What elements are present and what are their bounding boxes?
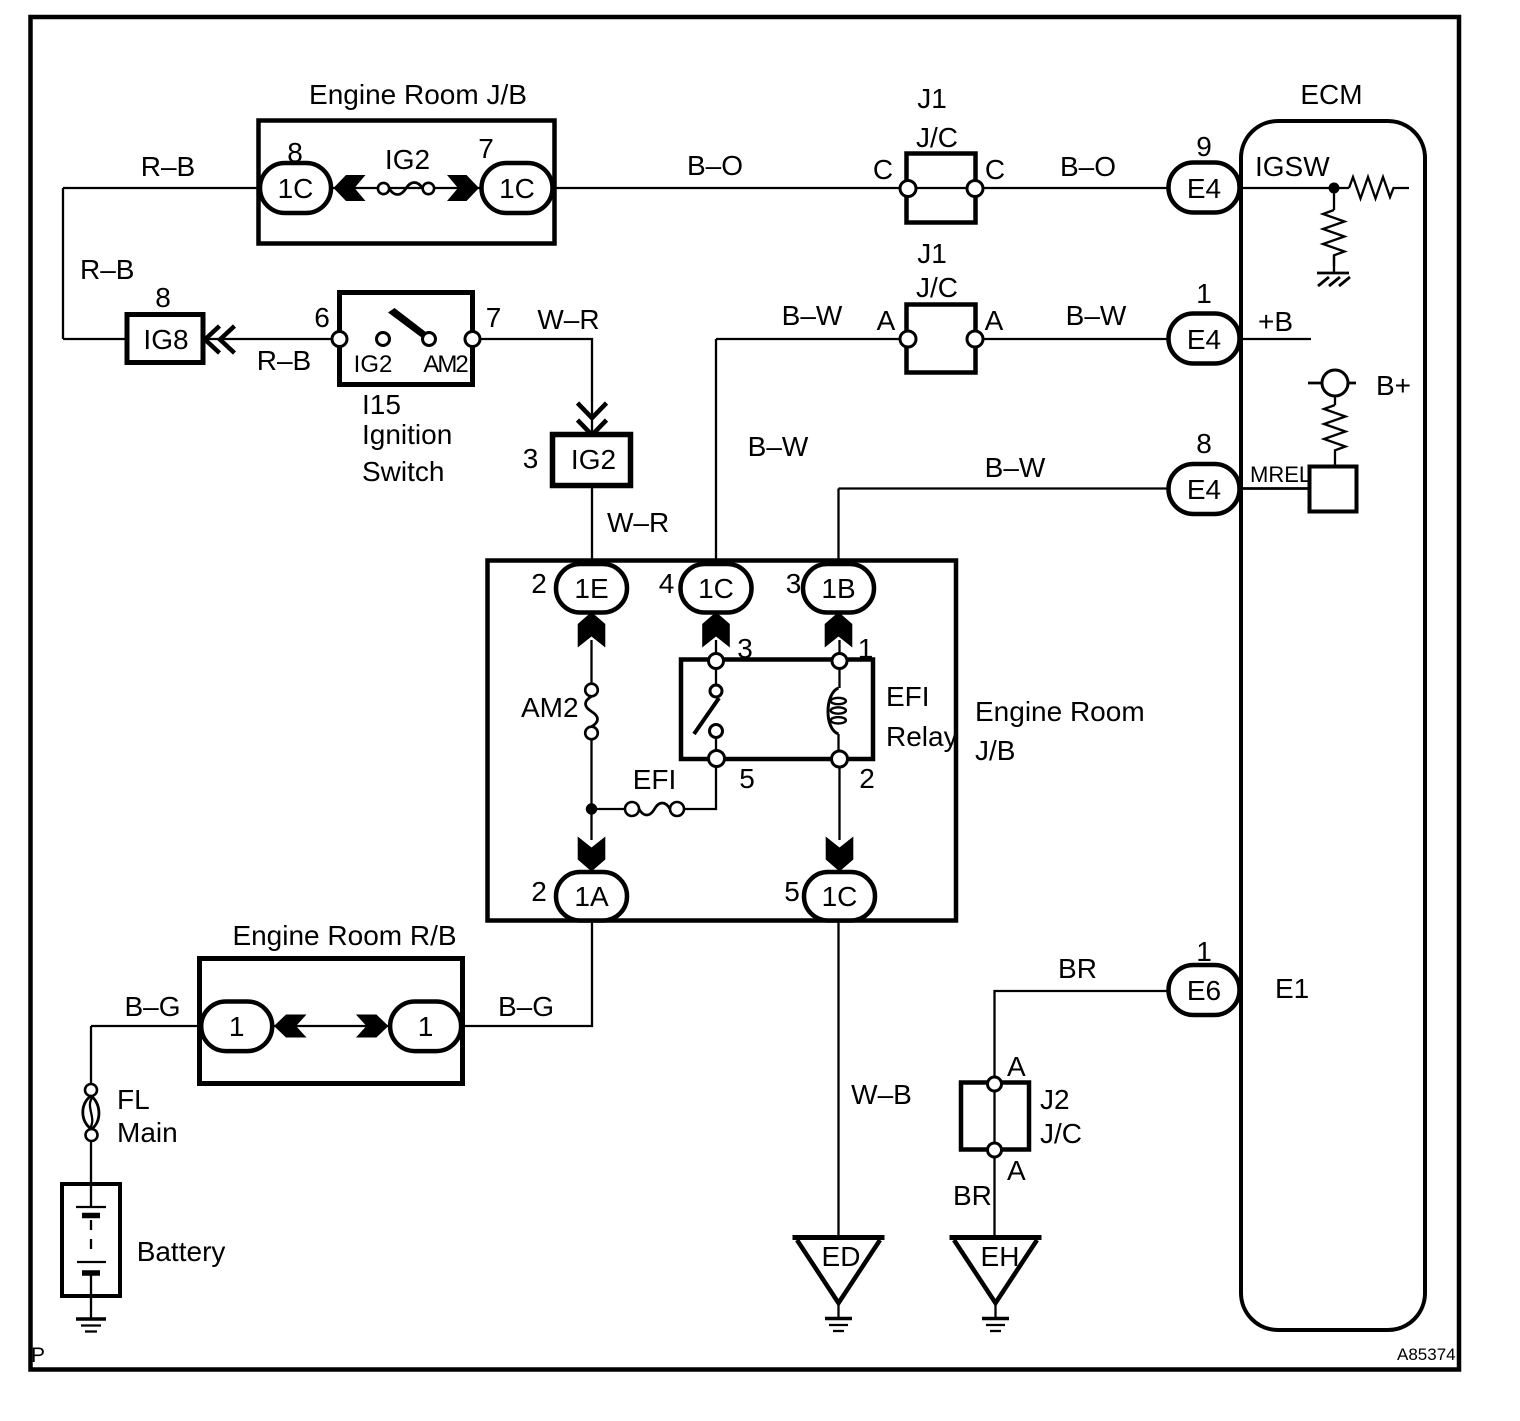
svg-text:1B: 1B [821, 573, 855, 604]
svg-text:J2: J2 [1040, 1084, 1070, 1115]
connector 1 (right, R/B) [390, 1002, 461, 1052]
svg-text:R–B: R–B [257, 345, 311, 376]
wire R-B from IG8 to ignition switch pin 6 [204, 338, 333, 340]
svg-text:E1: E1 [1275, 973, 1309, 1004]
node junction dot (EFI tap) [586, 803, 597, 814]
svg-text:9: 9 [1196, 131, 1212, 162]
wire relay pin 2 to 1C-5 arrow [838, 767, 840, 840]
svg-text:2: 2 [531, 876, 547, 907]
wire W-R from I15 pin 7 to IG2 fuse box [480, 339, 592, 434]
svg-text:AM2: AM2 [521, 692, 579, 723]
wire from B-G down to FL Main [90, 1026, 92, 1084]
wire from AM2 fuse through junction to 1A arrow [590, 739, 592, 840]
svg-text:IG2: IG2 [385, 144, 430, 175]
svg-text:Relay: Relay [886, 721, 958, 752]
wire inside R/B between connectors [272, 1025, 390, 1027]
connector 1A pin 2 [556, 872, 627, 921]
wire W-B from 1C pin 5 to ED [837, 920, 839, 1237]
svg-text:A: A [877, 305, 896, 336]
svg-text:1: 1 [1196, 278, 1212, 309]
svg-text:1A: 1A [574, 881, 609, 912]
svg-text:Main: Main [117, 1117, 178, 1148]
svg-text:B–G: B–G [498, 991, 554, 1022]
svg-text:MREL: MREL [1250, 462, 1311, 487]
svg-text:J/C: J/C [1040, 1118, 1082, 1149]
junction block Engine Room J/B (top) [259, 121, 555, 244]
svg-text:Switch: Switch [362, 456, 444, 487]
resistor (MREL circuit, vertical) [1324, 405, 1346, 466]
connector chevrons (double, down, at IG2 fuse box) [578, 403, 607, 435]
battery plate long (top cell) [76, 1206, 106, 1208]
relay pin 2 circle [832, 751, 848, 767]
svg-text:2: 2 [531, 568, 547, 599]
svg-text:A85374: A85374 [1397, 1345, 1456, 1364]
svg-text:1E: 1E [574, 573, 608, 604]
fuse IG2 [378, 183, 434, 195]
svg-text:E4: E4 [1187, 173, 1221, 204]
relay coil [828, 668, 846, 751]
resistor (IGSW pull-down, vertical) [1323, 210, 1345, 266]
wire relay pin 1 to 1B arrow [838, 640, 840, 653]
wire B-W from J1 J/C (A) to E4 pin 1 [983, 338, 1168, 340]
svg-text:1: 1 [418, 1011, 434, 1042]
relay pin 5 circle [709, 751, 725, 767]
svg-text:W–B: W–B [851, 1079, 912, 1110]
svg-text:J1: J1 [917, 83, 947, 114]
ECM body [1241, 121, 1425, 1330]
wire from EFI fuse to relay pin 5 [684, 766, 716, 809]
connector E4 pin 9 [1169, 163, 1240, 213]
connector 1C pin 4 [681, 564, 752, 613]
svg-text:1C: 1C [698, 573, 734, 604]
junction connector J1 J/C (C) body [907, 154, 976, 223]
wire B-W from 1B riser to E4 pin 8 [839, 487, 1169, 489]
battery dashed link [90, 1220, 92, 1257]
pin A circle (left) [900, 331, 916, 347]
wire R-B horizontal from frame-left riser to 1C pin 8 [63, 187, 260, 189]
relay pin 3 circle [709, 654, 724, 669]
svg-text:Engine Room R/B: Engine Room R/B [232, 920, 456, 951]
pin C circle (right) [967, 181, 983, 197]
svg-text:7: 7 [478, 133, 494, 164]
relay block IG8 pin 8 [127, 315, 203, 363]
svg-text:E6: E6 [1187, 975, 1221, 1006]
relay switch lever [694, 698, 719, 734]
junction connector J1 J/C (A) body [907, 305, 976, 373]
connector arrow (down, above 1C-5) [826, 837, 854, 872]
wire W-R from IG2 fuse to 1E [591, 486, 593, 564]
svg-text:8: 8 [155, 282, 171, 313]
node junction dot (IGSW) [1329, 183, 1340, 194]
pin A circle (right) [967, 331, 983, 347]
relay block Engine Room R/B [200, 959, 463, 1084]
svg-text:A: A [985, 305, 1004, 336]
pin A circle (J2 top) [988, 1077, 1002, 1091]
EFI relay body [681, 660, 873, 760]
svg-text:C: C [985, 154, 1005, 185]
switch contact IG2 [377, 333, 390, 346]
junction connector J2 J/C body [961, 1083, 1029, 1150]
battery body [62, 1184, 120, 1296]
svg-text:1: 1 [858, 633, 874, 664]
ground connector ED (triangle) [793, 1238, 885, 1304]
svg-text:1C: 1C [278, 173, 314, 204]
svg-text:8: 8 [1196, 428, 1212, 459]
wire FL Main to battery [90, 1141, 92, 1207]
pin A circle (J2 bottom) [988, 1143, 1002, 1157]
battery plate short (top cell) [82, 1213, 100, 1219]
svg-text:6: 6 [314, 302, 330, 333]
svg-text:B–W: B–W [782, 300, 843, 331]
connector E4 pin 8 [1169, 464, 1240, 514]
svg-text:B–W: B–W [985, 452, 1046, 483]
svg-text:E4: E4 [1187, 324, 1221, 355]
connector arrow (up, under 1E) [578, 612, 606, 648]
svg-text:4: 4 [659, 568, 675, 599]
svg-text:ECM: ECM [1300, 79, 1362, 110]
connector arrow (right, R/B) [356, 1015, 389, 1038]
connector E4 pin 1 [1169, 314, 1240, 364]
connector arrow (left, R/B) [274, 1015, 307, 1038]
svg-text:BR: BR [953, 1180, 992, 1211]
battery plate short (lower cell) [82, 1270, 100, 1276]
wire from node to pull-down resistor [1333, 188, 1335, 210]
svg-text:A: A [1007, 1155, 1026, 1186]
svg-text:3: 3 [523, 443, 539, 474]
svg-text:E4: E4 [1187, 474, 1221, 505]
wire inside J/B between connectors [331, 187, 483, 189]
ground connector EH (triangle) [950, 1238, 1042, 1304]
connector E6 pin 1 [1169, 965, 1240, 1015]
svg-text:Engine Room J/B: Engine Room J/B [309, 79, 527, 110]
relay coil box (inside ECM) [1310, 467, 1357, 512]
svg-text:B+: B+ [1376, 370, 1411, 401]
wire EH to ground [994, 1303, 996, 1317]
svg-text:8: 8 [287, 137, 303, 168]
svg-text:Engine Room: Engine Room [975, 696, 1145, 727]
svg-text:IG2: IG2 [354, 351, 393, 378]
svg-text:J/B: J/B [975, 735, 1015, 766]
pin 7 circle (I15) [465, 332, 480, 347]
switch lever (I15) [388, 308, 427, 338]
resistor (IGSW series, horizontal) [1349, 177, 1409, 199]
wire battery to ground [90, 1273, 92, 1318]
connector arrow (right, at 1C pin 7) [447, 175, 479, 201]
connector 1E pin 2 [556, 564, 627, 613]
switch contact AM2 [423, 333, 436, 346]
svg-text:C: C [873, 154, 893, 185]
wire B-W riser from 1C pin 4 [715, 339, 717, 564]
svg-text:IG8: IG8 [143, 324, 188, 355]
wire ED to ground [837, 1303, 839, 1317]
svg-text:P: P [31, 1344, 45, 1367]
wire from 1E arrow to AM2 fuse [590, 640, 592, 684]
svg-text:IG2: IG2 [571, 444, 616, 475]
svg-text:W–R: W–R [607, 507, 669, 538]
svg-text:Battery: Battery [137, 1236, 226, 1267]
connector 1C pin 5 [804, 872, 875, 921]
wire B-G from R/B to 1A [461, 920, 593, 1026]
wire relay pin 3 to 1C-4 arrow [715, 640, 717, 653]
svg-text:EFI: EFI [886, 681, 930, 712]
relay switch lower contact [710, 725, 723, 738]
wire MREL from E4 pin 8 to coil box [1240, 487, 1310, 490]
relay switch fixed contact [710, 685, 722, 697]
wire B-G from battery branch to R/B [91, 1025, 202, 1027]
fuse AM2 [585, 684, 598, 740]
svg-text:2: 2 [859, 763, 875, 794]
svg-text:5: 5 [784, 876, 800, 907]
svg-text:ED: ED [822, 1241, 861, 1272]
svg-text:A: A [1007, 1051, 1026, 1082]
wire IGSW inside ECM [1240, 187, 1349, 189]
svg-text:7: 7 [486, 302, 502, 333]
svg-text:R–B: R–B [80, 254, 134, 285]
wire +B inside ECM [1240, 338, 1311, 340]
svg-text:R–B: R–B [141, 151, 195, 182]
connector 1B pin 3 [803, 564, 874, 613]
pin 6 circle (I15) [332, 332, 347, 347]
svg-text:J1: J1 [917, 238, 947, 269]
svg-text:1C: 1C [499, 173, 535, 204]
junction block Engine Room J/B (center) [488, 561, 957, 921]
wire R-B into IG8 [63, 338, 127, 340]
wire from junction to EFI fuse [592, 808, 626, 810]
wire from B+ to resistor [1334, 396, 1336, 405]
svg-text:+B: +B [1258, 306, 1293, 337]
svg-text:AM2: AM2 [423, 351, 468, 378]
svg-text:B–O: B–O [687, 150, 743, 181]
connector 1 (left, R/B) [201, 1002, 272, 1052]
wire pin3 to contact [715, 668, 717, 685]
wire BR from J2 to EH [993, 1157, 995, 1237]
svg-text:J/C: J/C [916, 272, 958, 303]
svg-text:I15: I15 [362, 389, 401, 420]
wire to internal ground [1333, 255, 1335, 272]
svg-text:W–R: W–R [537, 304, 599, 335]
ground (EH) [982, 1319, 1009, 1332]
svg-text:J/C: J/C [916, 122, 958, 153]
svg-text:BR: BR [1058, 953, 1097, 984]
svg-text:3: 3 [786, 568, 802, 599]
connector 1C pin 7 [482, 163, 553, 213]
svg-text:IGSW: IGSW [1255, 151, 1330, 182]
connector arrow (down, above 1A) [578, 837, 606, 872]
wire BR from E6 to J2 J/C [995, 991, 1169, 1078]
svg-text:EH: EH [981, 1241, 1020, 1272]
ground (battery) [76, 1319, 106, 1332]
svg-text:B–G: B–G [124, 991, 180, 1022]
wire B-O from 1C pin 7 to E4 pin 9 [553, 187, 1169, 189]
svg-text:FL: FL [117, 1084, 150, 1115]
ground (ED) [825, 1319, 852, 1332]
ignition switch I15 body [340, 293, 473, 385]
battery feed symbol B+ [1308, 370, 1356, 396]
svg-text:3: 3 [737, 633, 753, 664]
pin C circle (left) [900, 181, 916, 197]
fuse EFI [625, 802, 684, 816]
svg-text:B–W: B–W [1066, 300, 1127, 331]
svg-text:1: 1 [229, 1011, 245, 1042]
svg-text:B–W: B–W [748, 431, 809, 462]
connector arrow (up, under 1B) [825, 612, 853, 648]
connector 1C pin 8 [260, 163, 331, 213]
connector arrow (left, at 1C pin 8) [334, 175, 366, 201]
wire through J2 J/C [993, 1084, 995, 1150]
svg-text:EFI: EFI [633, 764, 677, 795]
relay pin 1 circle [832, 654, 847, 669]
wire R-B vertical riser [62, 188, 64, 339]
svg-text:1: 1 [1196, 936, 1212, 967]
battery plate long (lower cell) [77, 1261, 106, 1263]
svg-text:1C: 1C [822, 881, 858, 912]
connector chevrons (double, at IG8) [205, 326, 235, 353]
fuse box IG2 pin 3 [553, 435, 631, 486]
wire B-W riser from 1B [837, 489, 839, 565]
wire lower contact to pin 5 [715, 737, 717, 751]
svg-text:5: 5 [739, 763, 755, 794]
svg-text:B–O: B–O [1060, 151, 1116, 182]
fusible link FL Main [83, 1084, 99, 1141]
ground (internal, hatched) [1317, 273, 1350, 286]
wire B-W from 1C pin 4 riser to J1 J/C (A) [716, 338, 900, 340]
svg-text:Ignition: Ignition [362, 419, 452, 450]
connector arrow (up, under 1C-4) [702, 612, 730, 648]
